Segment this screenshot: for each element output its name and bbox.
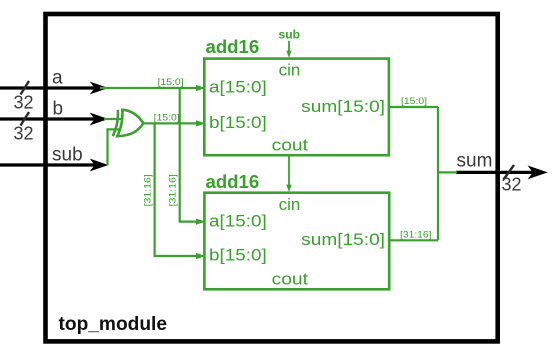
svg-text:[31:16]: [31:16] [142, 174, 153, 206]
svg-text:sub: sub [52, 144, 83, 165]
svg-text:32: 32 [14, 93, 34, 113]
svg-text:a: a [52, 68, 63, 89]
svg-text:b: b [53, 99, 64, 120]
svg-text:[15:0]: [15:0] [401, 96, 427, 107]
svg-text:a[15:0]: a[15:0] [209, 78, 267, 97]
svg-text:b[15:0]: b[15:0] [209, 113, 267, 132]
svg-text:32: 32 [502, 175, 522, 195]
svg-text:[15:0]: [15:0] [158, 77, 184, 88]
svg-text:sum[15:0]: sum[15:0] [301, 230, 385, 249]
svg-text:b[15:0]: b[15:0] [209, 246, 267, 265]
svg-text:[15:0]: [15:0] [154, 113, 180, 124]
svg-text:sub: sub [279, 28, 301, 42]
svg-text:add16: add16 [206, 172, 260, 192]
svg-text:cin: cin [279, 60, 301, 79]
svg-text:a[15:0]: a[15:0] [209, 211, 267, 230]
svg-text:add16: add16 [206, 37, 260, 57]
svg-text:cout: cout [272, 135, 309, 154]
svg-text:cout: cout [272, 269, 309, 288]
svg-text:[31:16]: [31:16] [400, 230, 432, 241]
svg-text:sum[15:0]: sum[15:0] [301, 97, 385, 116]
svg-text:top_module: top_module [59, 314, 168, 335]
svg-text:cin: cin [279, 195, 301, 214]
svg-text:[31:16]: [31:16] [167, 174, 178, 206]
svg-text:32: 32 [14, 123, 34, 143]
svg-text:sum: sum [457, 150, 493, 171]
